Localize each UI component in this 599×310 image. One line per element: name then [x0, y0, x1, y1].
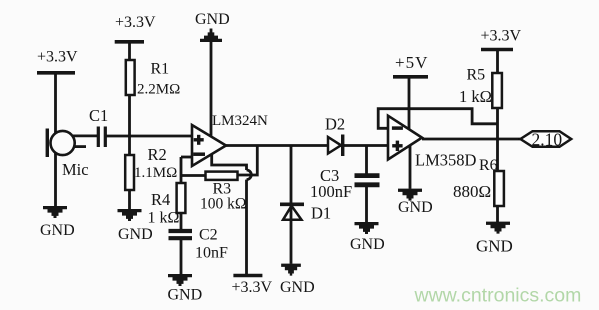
svg-text:GND: GND	[350, 236, 385, 253]
svg-text:GND: GND	[168, 287, 203, 304]
svg-text:2.10: 2.10	[532, 129, 563, 149]
svg-text:+3.3V: +3.3V	[232, 279, 273, 296]
svg-text:D2: D2	[325, 115, 345, 134]
svg-text:C1: C1	[89, 106, 108, 125]
svg-text:1 kΩ: 1 kΩ	[459, 87, 492, 106]
svg-text:LM358D: LM358D	[415, 151, 477, 170]
svg-text:Mic: Mic	[62, 160, 89, 179]
svg-text:+3.3V: +3.3V	[481, 28, 522, 45]
svg-text:R6: R6	[479, 157, 498, 174]
svg-text:GND: GND	[40, 222, 75, 239]
svg-text:R4: R4	[151, 190, 170, 209]
svg-text:LM324N: LM324N	[212, 113, 268, 129]
svg-text:100nF: 100nF	[310, 182, 352, 201]
svg-text:GND: GND	[398, 199, 433, 216]
svg-text:880Ω: 880Ω	[453, 182, 491, 201]
svg-text:D1: D1	[311, 204, 331, 223]
svg-text:www.cntronics.com: www.cntronics.com	[414, 285, 582, 307]
svg-text:GND: GND	[118, 226, 153, 243]
svg-text:+3.3V: +3.3V	[115, 14, 156, 31]
svg-text:R2: R2	[148, 145, 167, 164]
svg-text:C2: C2	[199, 227, 218, 244]
svg-text:R1: R1	[151, 61, 170, 78]
svg-text:R5: R5	[467, 67, 486, 84]
svg-text:GND: GND	[280, 279, 315, 296]
svg-text:GND: GND	[476, 237, 513, 256]
svg-text:10nF: 10nF	[195, 245, 228, 262]
svg-text:+3.3V: +3.3V	[37, 49, 78, 66]
svg-text:2.2MΩ: 2.2MΩ	[137, 82, 180, 98]
svg-text:GND: GND	[195, 11, 230, 28]
svg-text:1 kΩ: 1 kΩ	[148, 210, 180, 227]
svg-text:1.1MΩ: 1.1MΩ	[134, 165, 177, 181]
svg-text:+5V: +5V	[395, 53, 428, 72]
svg-text:100 kΩ: 100 kΩ	[200, 196, 246, 213]
